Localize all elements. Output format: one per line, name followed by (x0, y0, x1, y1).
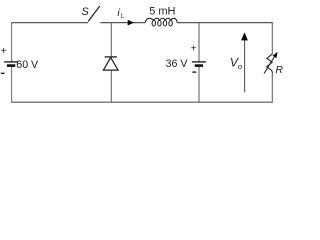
current arrow iL head (128, 20, 134, 26)
svg-text:+: + (191, 44, 197, 55)
svg-text:+: + (1, 46, 7, 57)
wire 36V branch lower (198, 67, 200, 103)
svg-text:R: R (275, 64, 283, 76)
resistor R variable arrow head (273, 52, 278, 58)
battery 60V short plate (7, 64, 15, 67)
battery 36V short plate (195, 64, 203, 67)
svg-text:o: o (238, 62, 242, 71)
battery 36V long plate (192, 61, 206, 63)
wire top-left segment (11, 22, 88, 24)
wire top-right segment (177, 22, 273, 24)
diode D cathode bar (105, 56, 117, 58)
wire bottom (11, 101, 273, 103)
wire right side lower (271, 74, 273, 103)
wire left side upper (11, 22, 13, 61)
inductor L coil loops (152, 20, 172, 26)
wire right side upper (271, 22, 273, 54)
battery 60V long plate (4, 61, 18, 63)
resistor R variable arrow line (264, 57, 274, 74)
wire top-middle segment (100, 22, 145, 24)
wire diode branch upper (110, 22, 112, 56)
svg-text:S: S (81, 6, 89, 18)
switch S blade (88, 6, 100, 22)
wire left side lower (11, 67, 13, 103)
svg-text:60 V: 60 V (16, 59, 39, 71)
svg-text:L: L (121, 12, 125, 19)
Vo arrow head (241, 32, 248, 40)
battery 60V minus sign (1, 72, 5, 74)
wire 36V branch upper (198, 22, 200, 61)
wire diode branch lower (110, 70, 112, 103)
inductor L coil humps (145, 18, 177, 22)
Vo arrow line (244, 40, 246, 93)
resistor R zigzag (267, 54, 273, 74)
svg-text:5 mH: 5 mH (149, 5, 175, 17)
diode D triangle (103, 58, 118, 71)
battery 36V minus sign (192, 71, 196, 73)
svg-text:36 V: 36 V (166, 58, 189, 70)
